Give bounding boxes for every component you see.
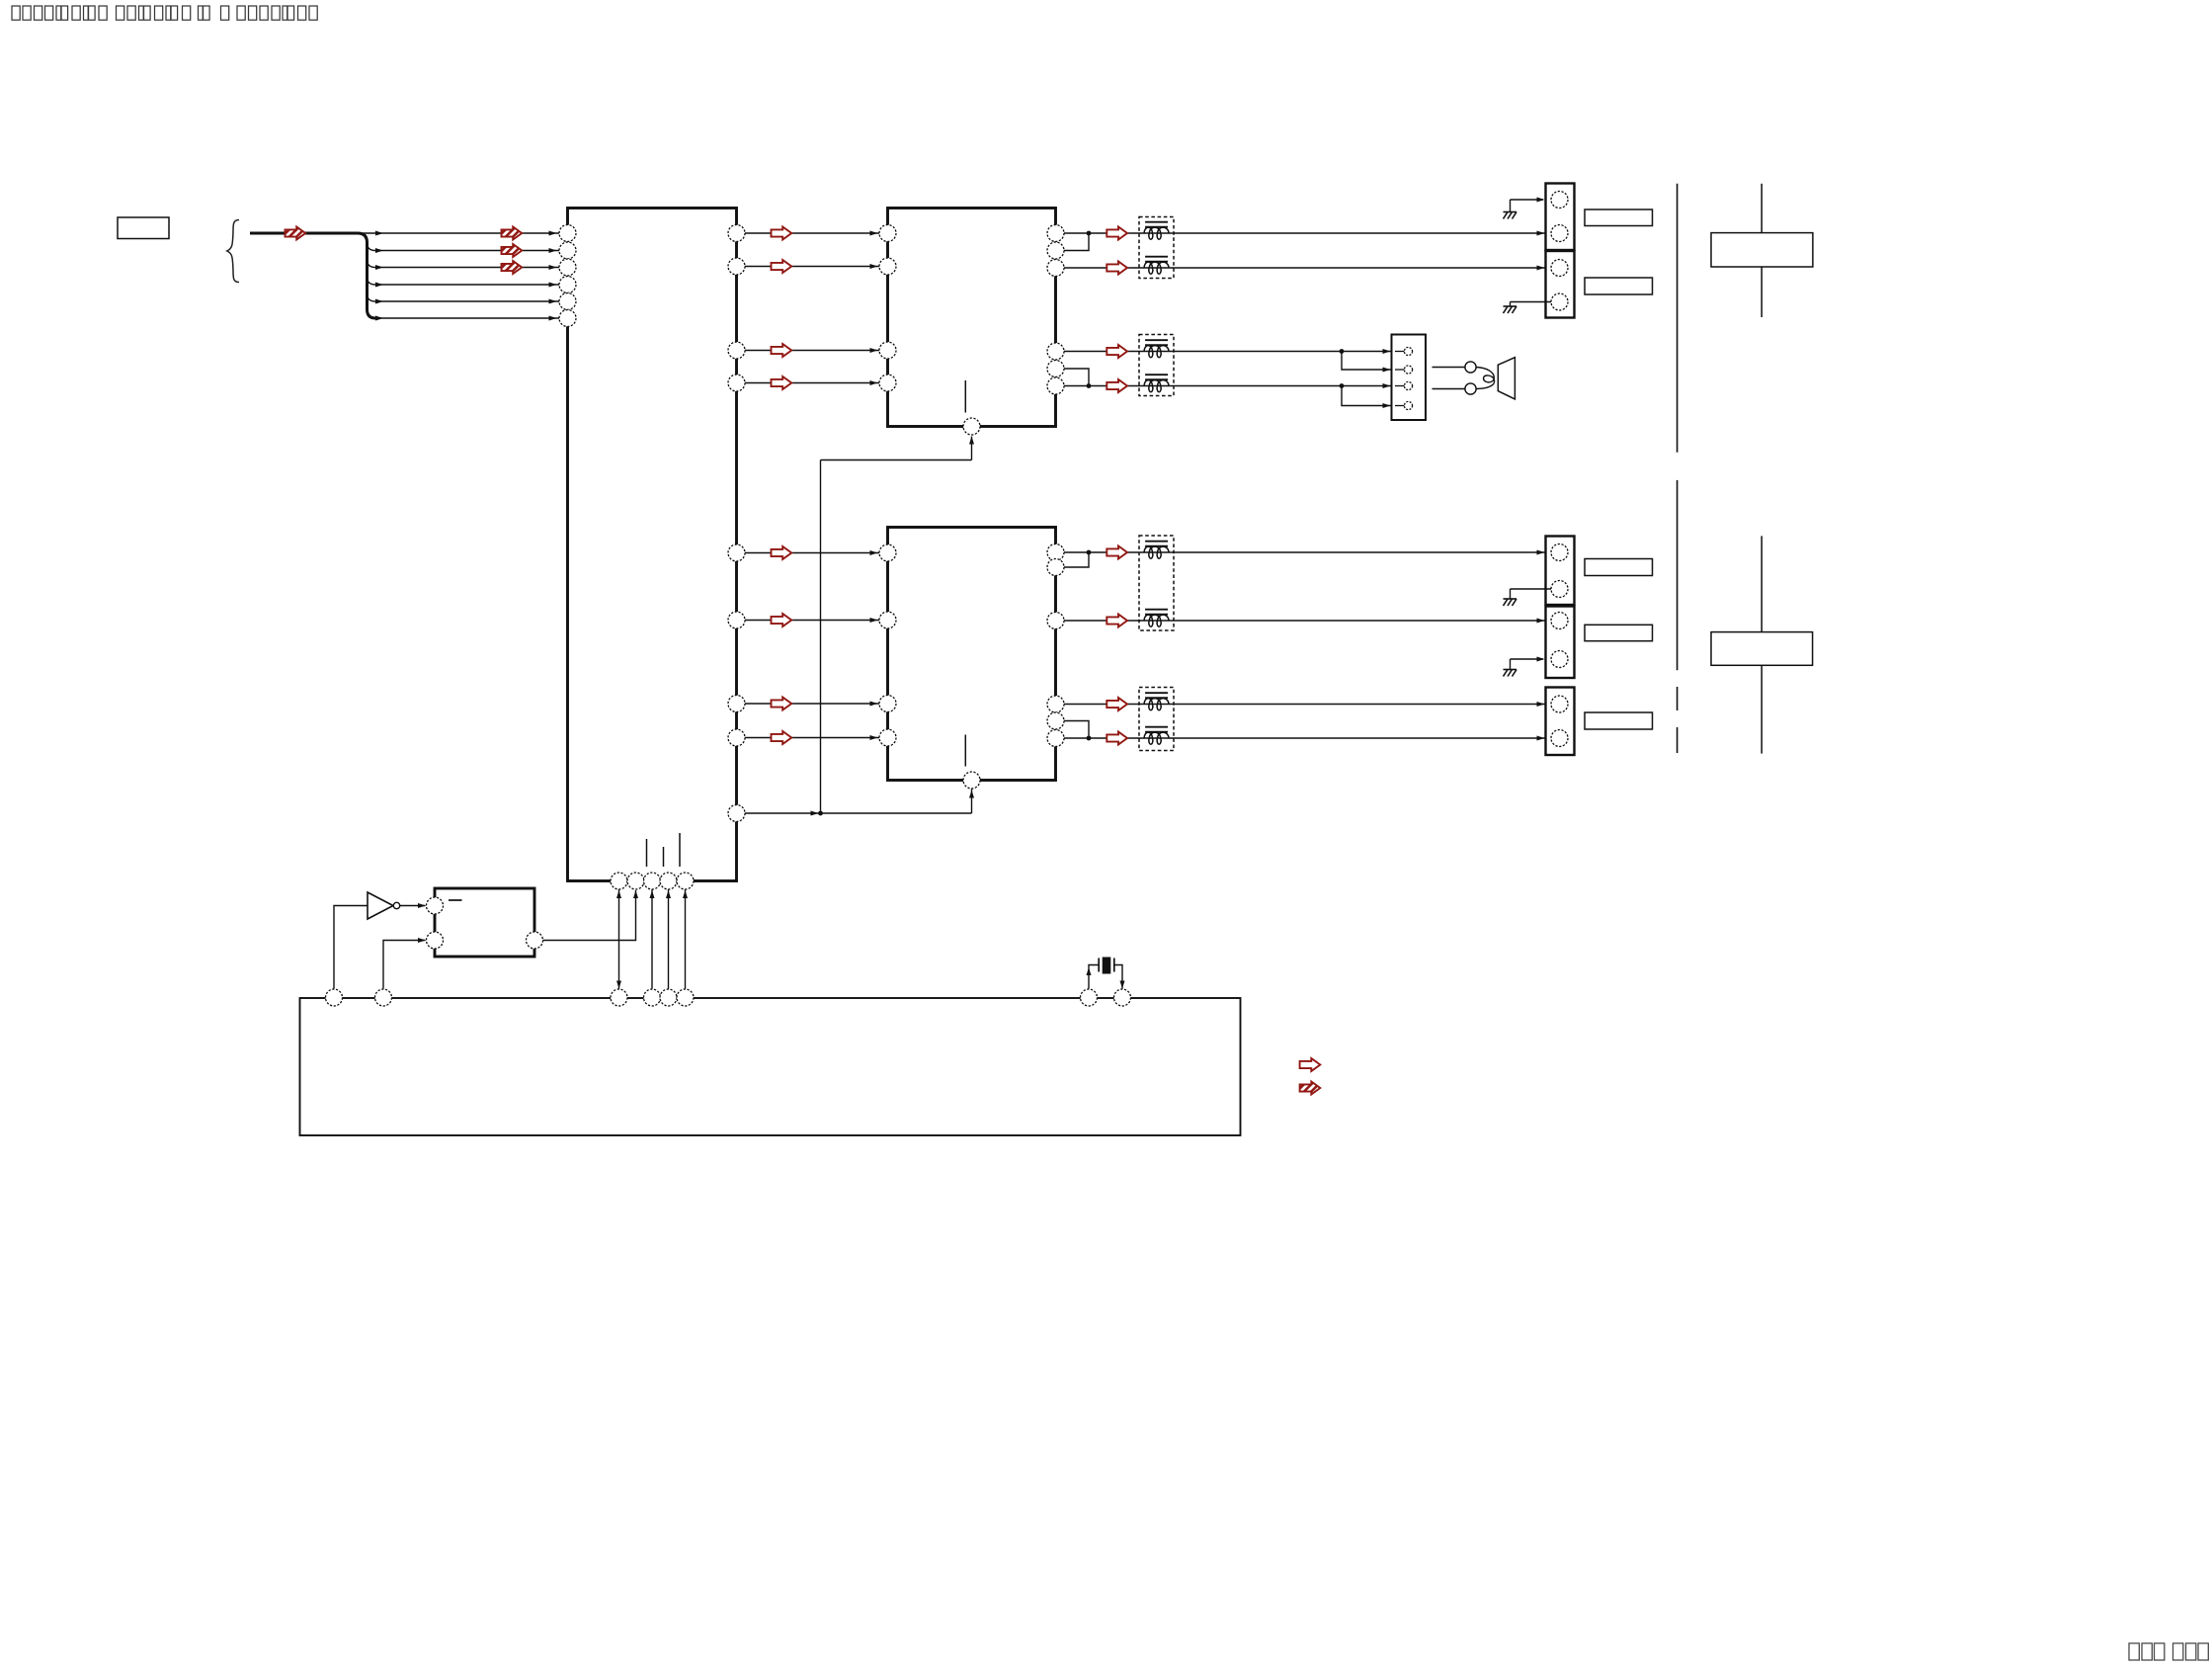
signal arrow U3 out 1 xyxy=(1106,546,1127,559)
filter FL4 xyxy=(1139,688,1174,751)
U3 internal pin stub xyxy=(964,735,966,767)
inductor FL1-b xyxy=(1144,257,1169,275)
U2 internal pin stub xyxy=(964,380,966,413)
wire: U4 to U1 line 3 xyxy=(650,889,655,989)
U3 bottom pin xyxy=(963,772,980,789)
U2 bottom pin xyxy=(963,418,980,435)
label box CN2 xyxy=(1585,278,1653,294)
U1 left pins xyxy=(559,225,576,327)
connector CN3 xyxy=(1546,537,1575,606)
wire: U2 output jog pin2 xyxy=(1064,233,1089,251)
wire: input line 6 to U1 xyxy=(373,316,559,321)
signal arrow U2 out 3 xyxy=(1106,345,1127,358)
signal arrow U1-U2 line 2 xyxy=(772,260,792,273)
wire: U3 output 3 xyxy=(1064,702,1545,707)
IC U4 (main microcomputer) xyxy=(300,998,1241,1135)
wire: U1 to U3 audio line 4 xyxy=(745,735,879,740)
signal arrow U1-U3 line 2 xyxy=(772,614,792,626)
wire: U3 output 2 xyxy=(1064,619,1545,624)
wire: U4 to U1 line 5 xyxy=(683,889,688,989)
inductor FL4-a xyxy=(1144,693,1169,710)
signal arrow U1-U3 line 4 xyxy=(772,731,792,744)
signal arrow U2 out 2 xyxy=(1106,262,1127,275)
IC FF1 (reset/detector) xyxy=(427,888,543,957)
wire: U4 to inverter input xyxy=(334,906,368,989)
wire: U3 output 1 xyxy=(1064,550,1545,555)
IC U2 (power amplifier upper) xyxy=(888,209,1056,427)
label box CN5 xyxy=(1585,712,1653,729)
wire: U2 output L+ xyxy=(1064,231,1545,236)
wire: crystal left leg xyxy=(1087,965,1100,989)
signal arrow U3 out 4 xyxy=(1106,732,1127,745)
crystal X1 xyxy=(1099,958,1114,974)
speaker cable curl xyxy=(1476,368,1495,389)
speaker plug contacts xyxy=(1433,362,1477,394)
wire: input line 1 to U1 xyxy=(358,231,559,236)
footer page text (missing-glyph boxes) xyxy=(2129,1643,2208,1660)
wire: U3 output jog pin5 xyxy=(1064,721,1089,739)
inductor FL4-b xyxy=(1144,727,1169,745)
wire: U2 output L- xyxy=(1064,266,1545,271)
wire: input line 2 to U1 xyxy=(368,243,560,253)
U1 right pins xyxy=(728,225,745,822)
U3 left pins xyxy=(879,544,896,746)
U2 right pins xyxy=(1047,225,1064,395)
speaker assembly box lower xyxy=(1711,536,1813,753)
inductor FL2-a xyxy=(1144,340,1169,358)
legend signal arrow (hatched) xyxy=(1300,1082,1321,1095)
signal arrow U1-U3 line 1 xyxy=(772,546,792,559)
U3 right pins xyxy=(1047,544,1064,747)
filter FL3 xyxy=(1139,536,1174,630)
wire: U1 control to U2/U3 (mute/standby) xyxy=(745,437,974,816)
signal arrow (hatched) input line 3 xyxy=(502,261,523,274)
U4 top pins xyxy=(326,989,1131,1006)
wire: inverter output to FF1 xyxy=(400,903,426,908)
input bus brace xyxy=(227,220,239,283)
connector CN2 xyxy=(1546,251,1575,318)
signal arrow U3 out 2 xyxy=(1106,615,1127,627)
speaker SP1 xyxy=(1498,358,1515,399)
wire: U4 to U1 line 4 xyxy=(666,889,671,989)
connector CN4 xyxy=(1546,607,1575,679)
label box CN1 xyxy=(1585,209,1653,226)
filter FL2 xyxy=(1139,335,1174,396)
wire: input line 5 to U1 xyxy=(368,294,560,304)
inverter/buffer Q1 xyxy=(368,892,400,919)
filter FL1 (output LC filter) xyxy=(1139,217,1174,279)
label box CN4 xyxy=(1585,625,1653,640)
signal arrow U1-U2 line 3 xyxy=(772,344,792,357)
connector CN6 (internal speaker) xyxy=(1392,335,1427,421)
signal arrow U1-U2 line 4 xyxy=(772,376,792,389)
wire: U1 pin to U4 (data) xyxy=(616,889,621,989)
signal arrow U2 out 4 xyxy=(1106,379,1127,392)
signal arrow (hatched) on trunk xyxy=(286,227,306,240)
title text (missing-glyph boxes) xyxy=(12,6,317,20)
wire: U2 output W+ to speaker connector xyxy=(1064,349,1391,373)
speaker assembly box upper xyxy=(1711,184,1813,317)
wire: U1 to U2 audio line 2 xyxy=(745,264,879,269)
U2 left pins xyxy=(879,225,896,392)
ground chassis at CN3 pin2 xyxy=(1504,589,1552,606)
wire: U3 output 4 xyxy=(1064,736,1545,741)
inductor FL2-b xyxy=(1144,375,1169,392)
boundary line (to next sheet) upper xyxy=(1677,184,1679,453)
wire: U2 output W- to speaker connector xyxy=(1064,383,1391,408)
wire: input line 4 to U1 xyxy=(368,278,560,288)
boundary line lower xyxy=(1677,480,1679,753)
wire: U1 to U3 audio line 2 xyxy=(745,618,879,623)
U1 internal pin stubs xyxy=(647,833,681,867)
signal arrow (hatched) input line 1 xyxy=(502,227,523,240)
inductor FL3-b xyxy=(1144,610,1169,627)
signal arrow U3 out 3 xyxy=(1106,698,1127,710)
wire: U1 to U3 audio line 3 xyxy=(745,702,879,707)
label box (unrendered text) top-left xyxy=(118,217,169,239)
wire: U1 to U2 audio line 1 xyxy=(745,231,879,236)
inductor FL3-a xyxy=(1144,542,1169,559)
signal arrow (hatched) input line 2 xyxy=(502,244,523,257)
signal arrow U2 out 1 xyxy=(1106,227,1127,240)
wire: input line 3 to U1 xyxy=(368,260,560,270)
legend signal arrow (plain) xyxy=(1300,1058,1321,1071)
wire: crystal right leg xyxy=(1114,965,1125,989)
wire: U3 output jog pin2 xyxy=(1064,552,1089,567)
wire: input bus trunk xyxy=(250,233,375,318)
IC U3 (power amplifier lower) xyxy=(888,528,1056,781)
connector CN5 (woofer out) xyxy=(1546,688,1575,756)
signal arrow U1-U2 line 1 xyxy=(772,227,792,240)
wire: U1 to U3 audio line 1 xyxy=(745,550,879,555)
U1 bottom pins xyxy=(611,873,694,889)
wire: FF1 output to U1 xyxy=(543,890,639,941)
ground chassis at CN4 pin2 xyxy=(1504,657,1545,677)
wire: U4 to FF1 input 2 xyxy=(383,938,426,989)
wire: U1 to U2 audio line 3 xyxy=(745,348,879,353)
signal arrow U1-U3 line 3 xyxy=(772,698,792,710)
label box CN3 xyxy=(1585,559,1653,576)
connector CN1 (front L out) xyxy=(1546,184,1575,251)
inductor FL1-a xyxy=(1144,222,1169,240)
wire: U1 to U2 audio line 4 xyxy=(745,380,879,385)
ground chassis at CN1 pin1 xyxy=(1504,198,1545,219)
IC U1 (system controller / DSP) xyxy=(568,209,737,881)
ground chassis at CN2 pin2 xyxy=(1504,302,1552,314)
wire: U2 output jog pin5 xyxy=(1064,369,1089,386)
